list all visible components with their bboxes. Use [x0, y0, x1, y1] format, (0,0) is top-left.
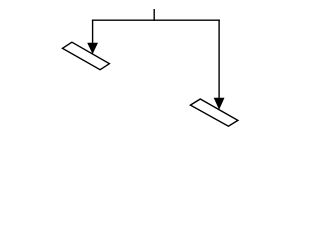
- wire: left vertical drop: [92, 20, 94, 45]
- wire: top stub from above: [153, 9, 155, 21]
- arrowhead: left arrow: [87, 43, 98, 54]
- wire: horizontal branch bus: [92, 19, 220, 21]
- wire: right vertical drop: [218, 20, 220, 101]
- node: right card (slanted rectangle): [190, 99, 238, 126]
- node: left card (slanted rectangle): [63, 42, 110, 69]
- arrowhead: right arrow: [214, 98, 225, 110]
